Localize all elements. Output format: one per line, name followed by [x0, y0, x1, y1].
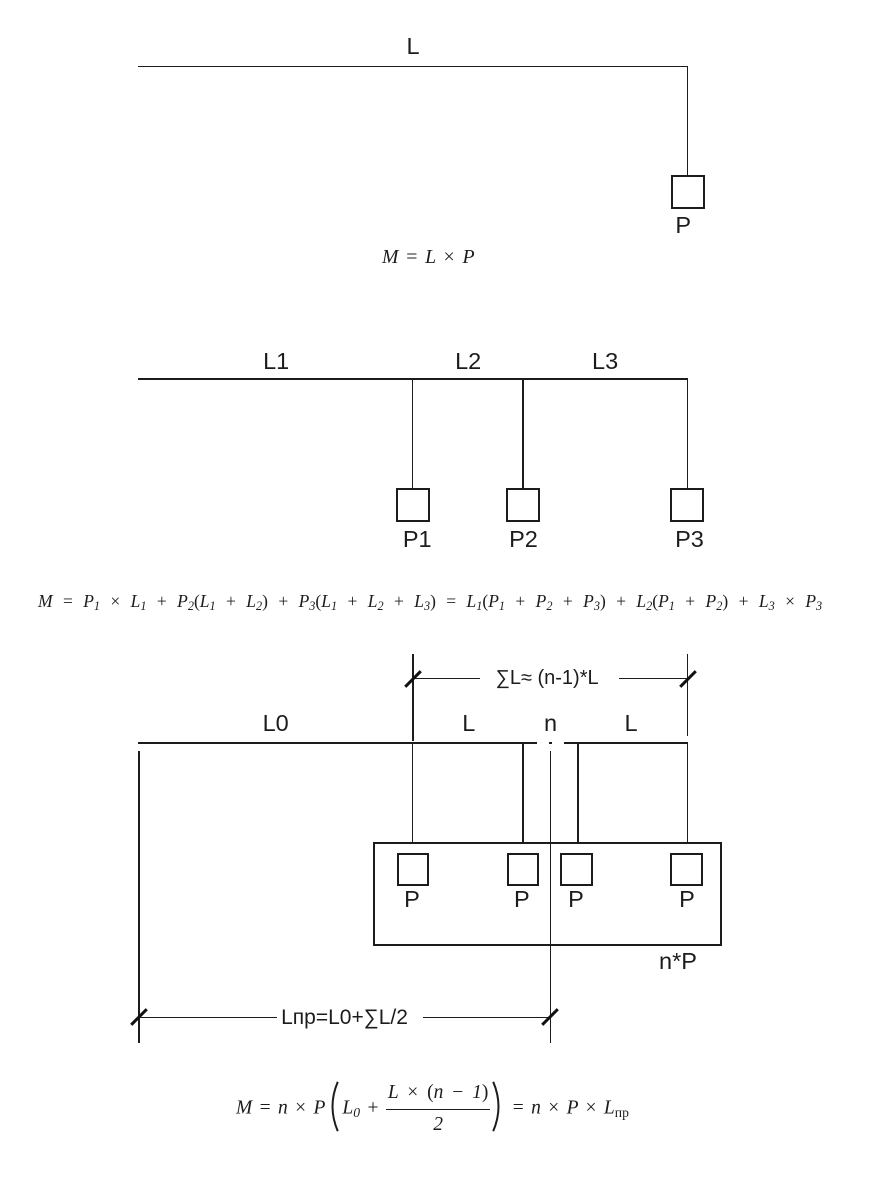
label n*P	[659, 950, 697, 974]
dimension text sumL = (n-1)*L	[496, 668, 599, 688]
tick right of Lpr dimension	[541, 1008, 559, 1026]
label L2	[455, 350, 481, 374]
wire main line L1-L2-L3	[138, 378, 688, 380]
centerline dot on main line	[549, 742, 552, 744]
group box n loads	[373, 842, 722, 946]
label P (2)	[514, 888, 530, 912]
dimension extension line left (x=413)	[412, 654, 414, 741]
load box P3	[670, 488, 704, 522]
label P1	[403, 528, 432, 552]
load box P (4)	[670, 853, 703, 886]
label L (right span)	[625, 712, 638, 736]
label n	[544, 712, 557, 736]
dimension line Lpr segment right	[423, 1017, 551, 1019]
formula M = L x P	[382, 248, 475, 268]
label L3	[592, 350, 618, 374]
label L0	[263, 712, 289, 736]
wire main line right segment	[564, 742, 688, 744]
load box P	[671, 175, 705, 209]
tick right of sumL dimension	[679, 670, 697, 688]
wire main line left segment	[138, 742, 537, 744]
load box P (3)	[560, 853, 593, 886]
dimension line Lpr segment left	[139, 1017, 277, 1019]
label P (4)	[679, 888, 695, 912]
dimension line sumL segment right	[619, 678, 688, 680]
wire drop 4	[687, 742, 689, 853]
extension line left vertical	[138, 751, 140, 1043]
load box P (2)	[507, 853, 540, 886]
label P	[675, 214, 691, 238]
formula M = P1xL1 + ...	[38, 593, 822, 611]
label P (1)	[404, 888, 420, 912]
label L	[407, 35, 420, 59]
dimension line sumL segment left	[413, 678, 480, 680]
wire L (horizontal feeder line)	[138, 66, 688, 68]
label P (3)	[568, 888, 584, 912]
label P3	[675, 528, 704, 552]
wire drop 2	[522, 742, 524, 853]
load box P2	[506, 488, 540, 522]
wire drop to P2	[522, 378, 524, 488]
formula M = n x P (L0 + Lx(n-1)/2) = n x P x Lpr	[236, 1081, 629, 1135]
wire drop to P1	[412, 378, 414, 488]
centerline vertical	[550, 751, 552, 1043]
wire drop to P3	[687, 378, 689, 488]
wire drop to load P	[687, 66, 689, 176]
label P2	[509, 528, 538, 552]
tick left of sumL dimension	[404, 670, 422, 688]
wire drop 1	[412, 742, 414, 853]
dimension text Lpr=L0+sumL/2	[281, 1007, 408, 1028]
load box P1	[396, 488, 430, 522]
label L (left span)	[462, 712, 475, 736]
load box P (1)	[397, 853, 429, 886]
wire drop 3	[577, 742, 579, 853]
tick left of Lpr dimension	[130, 1008, 148, 1026]
label L1	[263, 350, 289, 374]
dimension extension line right (x=687)	[687, 654, 689, 736]
